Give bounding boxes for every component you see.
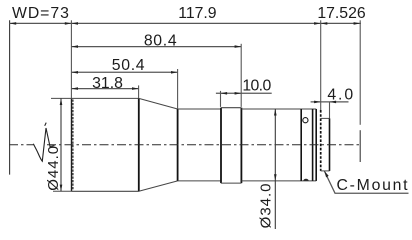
svg-text:Ø44.0: Ø44.0 <box>45 145 62 191</box>
svg-text:WD=73: WD=73 <box>12 5 70 22</box>
extension line 50.4 <box>177 69 179 109</box>
taper top edge <box>139 98 178 109</box>
arrow 117.9 right <box>314 22 321 25</box>
centerline <box>9 144 33 146</box>
dimension line 10.0 <box>216 92 272 94</box>
arrow 117.9 left <box>71 22 78 25</box>
arrow 17.526 right <box>354 22 361 25</box>
arrow dia44 top <box>60 98 63 105</box>
svg-text:C-Mount: C-Mount <box>337 177 410 194</box>
arrow 50.4 left <box>71 71 78 74</box>
dia44 bottom extension stub <box>53 190 71 192</box>
hood top edge <box>71 97 139 99</box>
focus ring top edge <box>221 107 241 109</box>
bottom set screw bump <box>303 179 308 181</box>
arrow leader <box>324 171 328 178</box>
arrow 10.0 right <box>235 92 242 95</box>
dimension line 31.8 <box>71 88 138 90</box>
arrow 31.8 left <box>71 87 78 90</box>
dimension line 4.0 <box>311 101 349 103</box>
extension line 31.8 <box>138 85 140 98</box>
rear flange line <box>312 109 314 181</box>
rear face <box>315 109 317 181</box>
arrow WD right <box>65 22 72 25</box>
dia44 top extension stub <box>51 97 71 99</box>
arrow dia44 bottom <box>60 185 63 192</box>
top dimension line <box>10 22 361 24</box>
C-mount bottom edge <box>321 170 330 172</box>
arrow 31.8 right <box>132 87 139 90</box>
arrow 4.0 left <box>314 101 321 104</box>
object plane extension line <box>9 20 11 174</box>
leader line C-Mount <box>324 171 408 193</box>
svg-text:50.4: 50.4 <box>112 57 146 74</box>
svg-text:17.526: 17.526 <box>317 5 366 22</box>
arrow dia34 top <box>274 109 277 116</box>
svg-text:4.0: 4.0 <box>327 87 355 104</box>
arrow 4.0 right <box>330 101 337 104</box>
lens front face <box>71 98 73 191</box>
barrel top edge rear <box>241 108 316 110</box>
svg-text:117.9: 117.9 <box>178 5 217 22</box>
barrel top edge front <box>178 108 221 110</box>
arrow 17.526 left <box>321 22 328 25</box>
focus ring left edge <box>220 108 222 183</box>
lens front inner edge (dashed) <box>72 100 74 191</box>
svg-text:10.0: 10.0 <box>242 77 271 94</box>
dimension line 80.4 <box>71 46 241 48</box>
arrow 80.4 right <box>235 45 242 48</box>
extension line 4.0 right <box>329 102 331 119</box>
extension line 10.0 <box>220 91 222 107</box>
barrel bottom edge rear <box>241 180 316 182</box>
svg-text:80.4: 80.4 <box>144 32 178 49</box>
dimension line dia44 <box>60 98 62 191</box>
hood rear edge <box>138 98 140 191</box>
C-mount thread start (dashed) <box>320 110 322 171</box>
arrow 10.0 left <box>221 92 228 95</box>
focus ring right edge <box>240 108 242 183</box>
focus ring bottom edge <box>221 182 241 184</box>
C-mount rear edge <box>329 118 331 170</box>
front face extension line <box>70 20 72 98</box>
image plane line <box>359 20 361 125</box>
barrel joint at taper end <box>177 109 179 181</box>
arrow 80.4 left <box>71 45 78 48</box>
set screw hole <box>303 118 308 123</box>
break symbol <box>33 128 54 161</box>
arrow WD left <box>10 22 17 25</box>
barrel bottom edge front <box>178 180 221 182</box>
dimension line dia34 <box>274 109 276 229</box>
C-mount top edge <box>321 117 330 119</box>
svg-text:31.8: 31.8 <box>92 75 123 92</box>
arrow dia34 bottom <box>274 174 277 181</box>
dimension line 50.4 <box>71 71 177 73</box>
extension line flange <box>320 20 322 110</box>
hood bottom edge <box>71 190 139 192</box>
taper bottom edge <box>139 181 178 191</box>
arrow 50.4 right <box>171 71 178 74</box>
extension line 80.4 <box>240 44 242 107</box>
rear ring boundary <box>300 109 302 181</box>
svg-text:Ø34.0: Ø34.0 <box>257 182 274 228</box>
